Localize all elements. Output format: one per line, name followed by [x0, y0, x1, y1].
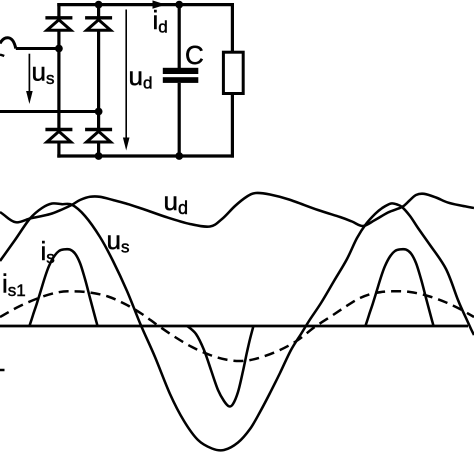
svg-text:id: id [153, 5, 168, 37]
svg-text:us: us [32, 57, 55, 89]
curve is pulse 3 [366, 249, 434, 326]
svg-text:ud: ud [129, 61, 153, 93]
curve us source voltage [0, 203, 474, 450]
capacitor C [163, 3, 199, 158]
node top rail junction [95, 1, 103, 9]
wire bottom rail (negative DC bus) [57, 154, 234, 157]
node capacitor bottom junction [175, 152, 183, 160]
arrow ud voltage [123, 10, 130, 151]
svg-text:us: us [107, 225, 130, 257]
svg-text:is1: is1 [2, 269, 26, 301]
diode D4 (bottom right) [85, 130, 112, 143]
node capacitor top junction [175, 1, 183, 9]
wire top rail (positive DC bus) [57, 3, 234, 6]
source VS (AC supply, cut off at left edge) [0, 38, 16, 49]
wire left bridge leg [57, 3, 60, 158]
wire AC upper terminal [16, 47, 59, 50]
curve is pulse 1 [30, 249, 98, 326]
curve is pulse 2 [187, 326, 254, 407]
svg-text:is: is [41, 236, 55, 267]
node bottom rail junction [95, 152, 103, 160]
arrow id current direction [153, 0, 166, 8]
curve ud rectified voltage [0, 193, 474, 227]
node upper AC junction [55, 45, 63, 53]
wire time axis [0, 325, 468, 328]
node lower AC junction [95, 108, 103, 116]
curve is1 fundamental (dashed) [0, 291, 474, 361]
svg-text:ud: ud [164, 186, 188, 218]
resistor R (load) [223, 3, 243, 158]
diode D1 (top left) [45, 18, 72, 31]
svg-text:C: C [185, 40, 204, 70]
node left edge tick [0, 369, 5, 372]
wire AC lower terminal [0, 110, 99, 113]
diode D2 (top right) [85, 18, 112, 31]
diode D3 (bottom left) [45, 130, 72, 143]
arrow us voltage [26, 54, 33, 104]
wire right bridge leg [97, 3, 100, 158]
